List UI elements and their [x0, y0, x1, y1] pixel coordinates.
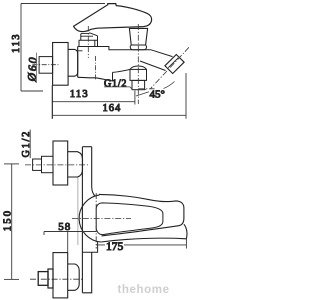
lower nipple large [48, 269, 53, 288]
lever outer outline (plan) [99, 194, 184, 236]
wall flange / escutcheon (top view) [53, 43, 69, 86]
dome over stack [130, 66, 147, 69]
collar ring line 2 [81, 35, 93, 37]
extension: connector right down [185, 73, 187, 119]
lever lower shell outline [101, 224, 187, 242]
lever center axis dash-dot [72, 218, 131, 220]
extension line bottom [21, 90, 43, 92]
svg-text:113: 113 [11, 33, 22, 53]
mixer body left edge [77, 47, 79, 78]
shower outlet stack tier2 [132, 80, 145, 89]
union nut (top view) [68, 49, 78, 76]
lower union axis [30, 278, 82, 280]
extension: outlet axis down [134, 91, 136, 105]
handle collar left edge [80, 34, 82, 41]
collar ring line 1 [81, 32, 90, 34]
dimension 164 horizontal [52, 73, 186, 119]
lower flange [53, 253, 68, 298]
spout underside [78, 77, 113, 81]
upper nipple small [33, 159, 42, 170]
label underline for diameter 60 [36, 53, 38, 84]
body tube top edge (bottom view) [82, 146, 91, 148]
center line of wall union (top view) [33, 64, 59, 66]
cartridge axis (dash-dot) [87, 26, 89, 58]
svg-text:164: 164 [103, 103, 122, 114]
horizontal axis at elbow [138, 88, 154, 90]
mixer body top edge (top view) [78, 46, 96, 48]
lever inner rounded face [96, 203, 163, 235]
diverter knob [129, 28, 147, 45]
diverter base [130, 45, 146, 50]
body step below cap circle [82, 241, 97, 252]
dimension 113 horizontal [52, 86, 135, 119]
svg-text:113: 113 [70, 88, 89, 100]
upper nut [68, 152, 83, 177]
connector inner line [168, 58, 178, 68]
svg-text:58: 58 [58, 221, 71, 233]
elbow lower slope [140, 61, 166, 71]
body tube left edge [81, 147, 83, 293]
dimension 175 [96, 193, 186, 249]
svg-text:thehome: thehome [118, 284, 170, 296]
svg-text:45°: 45° [150, 88, 165, 100]
lower nut [68, 264, 80, 290]
45 deg axis (dash-dot) [151, 47, 190, 88]
upper flange [53, 141, 68, 185]
elbow upper slope [151, 50, 173, 57]
diverter axis (dash-dot) [137, 24, 139, 104]
handle underside diagonal [89, 33, 97, 36]
svg-text:150: 150 [2, 209, 13, 231]
angle leader to 45 label [136, 82, 175, 97]
body tube right edge curving into cap circle [92, 147, 96, 197]
dimension 150 vertical [4, 164, 19, 280]
extension line (gray) near union [77, 178, 79, 246]
58 left tick [43, 232, 45, 236]
svg-text:175: 175 [106, 241, 124, 253]
svg-text:Ø60: Ø60 [26, 55, 39, 82]
body tube lower right edge and bottom [82, 252, 91, 292]
cartridge cylinder under handle [79, 40, 98, 46]
dimension 113 vertical: dim line [21, 4, 105, 92]
extension line top to handle [21, 3, 105, 5]
nipple (top view) [39, 57, 53, 74]
spout outlet axis [95, 56, 97, 80]
extension: flange seam down [51, 86, 53, 119]
extension line at flange edge [67, 232, 69, 252]
body internal line [78, 50, 83, 52]
cartridge circle (plan, left arc) [79, 195, 101, 242]
shower outlet stack tier1 [130, 69, 147, 80]
handle lever (top view side) [74, 4, 152, 32]
spout tube top edge [113, 69, 131, 72]
45 deg connector (rotated nut) [165, 55, 184, 74]
lower nipple small [38, 272, 48, 286]
handle heel and deck cascade [96, 36, 152, 50]
dimension 58 [44, 232, 97, 253]
svg-text:G1/2: G1/2 [104, 78, 127, 89]
upper nipple large [42, 156, 54, 172]
upper union axis [25, 164, 88, 166]
spout tip [112, 72, 114, 80]
